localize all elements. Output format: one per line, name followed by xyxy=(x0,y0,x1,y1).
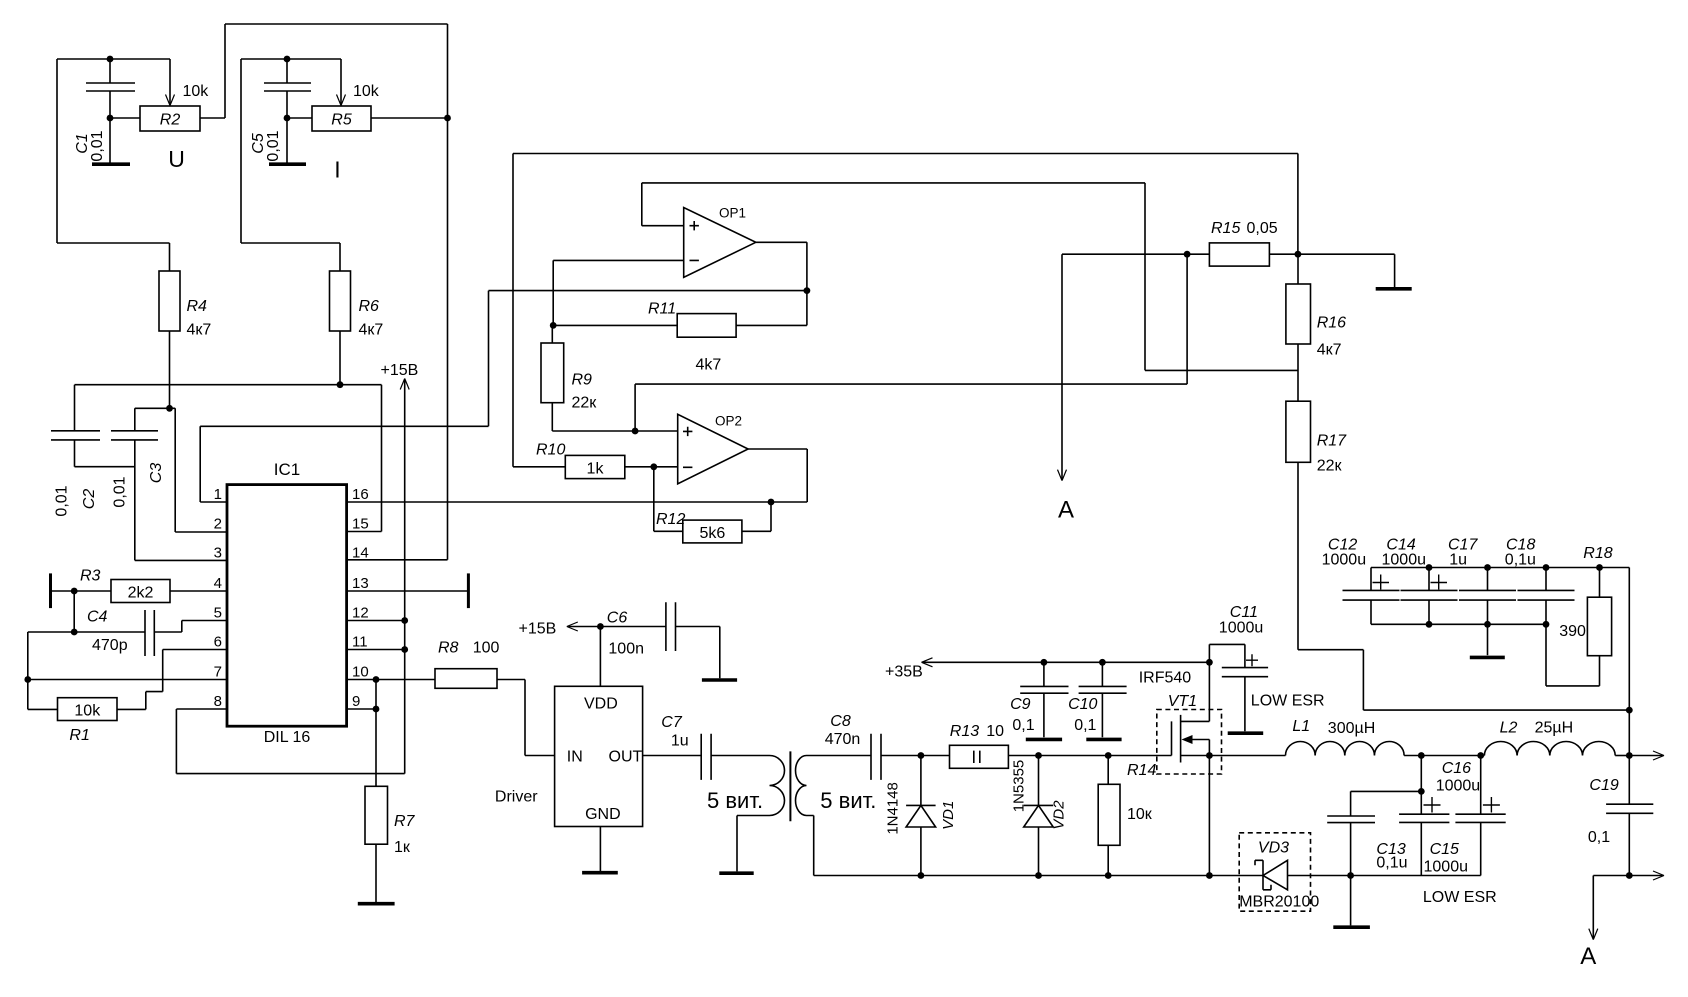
svg-text:1N5355: 1N5355 xyxy=(1011,760,1028,813)
resistor R14 10k gate pulldown xyxy=(1098,752,1156,879)
transformer secondary 5 turns xyxy=(796,756,877,876)
resistor R15 0,05 shunt xyxy=(1062,220,1301,266)
svg-text:0,01: 0,01 xyxy=(265,130,282,161)
ground C11 xyxy=(1228,731,1264,735)
svg-text:6: 6 xyxy=(214,634,222,651)
ground xyxy=(1026,738,1062,742)
svg-text:MBR20100: MBR20100 xyxy=(1239,894,1319,911)
svg-text:13: 13 xyxy=(352,575,369,592)
power +15B arrow at driver xyxy=(519,621,604,687)
ground driver GND xyxy=(582,827,618,873)
resistor R5 10k potentiometer xyxy=(287,59,451,183)
ground cap bank xyxy=(1470,624,1505,657)
svg-text:LOW ESR: LOW ESR xyxy=(1423,889,1497,906)
svg-text:L1: L1 xyxy=(1292,718,1310,735)
svg-text:OP1: OP1 xyxy=(719,206,746,221)
svg-text:C6: C6 xyxy=(607,610,628,627)
svg-text:R6: R6 xyxy=(359,298,380,315)
svg-text:0,05: 0,05 xyxy=(1247,220,1278,237)
svg-text:1000u: 1000u xyxy=(1436,778,1481,795)
capacitor C1 xyxy=(74,59,135,163)
node A current sense arrow xyxy=(1058,254,1075,523)
svg-text:I: I xyxy=(334,157,340,183)
svg-text:390: 390 xyxy=(1559,623,1586,640)
wire divider tap to OP1 xyxy=(1145,183,1298,371)
svg-text:C10: C10 xyxy=(1068,696,1097,713)
svg-text:R2: R2 xyxy=(160,112,181,129)
svg-text:R8: R8 xyxy=(438,640,459,657)
inductor L2 25uH xyxy=(1484,720,1615,756)
svg-text:10к: 10к xyxy=(1127,806,1153,823)
wire OP1 output to pin 1 xyxy=(200,242,810,502)
svg-text:R18: R18 xyxy=(1583,545,1612,562)
node I top wire xyxy=(241,56,341,271)
svg-text:7: 7 xyxy=(214,664,222,681)
wire L2 to output xyxy=(1615,755,1629,757)
svg-text:C19: C19 xyxy=(1589,777,1618,794)
svg-text:10: 10 xyxy=(352,664,369,681)
svg-text:1000u: 1000u xyxy=(1382,552,1427,569)
svg-text:5 вит.: 5 вит. xyxy=(820,788,876,813)
wire OP2 output xyxy=(748,449,807,502)
svg-text:R7: R7 xyxy=(394,813,416,830)
svg-text:R3: R3 xyxy=(80,568,101,585)
wire VT1 source to bottom rail xyxy=(1208,756,1210,876)
svg-text:1: 1 xyxy=(214,486,222,503)
svg-text:1к: 1к xyxy=(394,839,411,856)
capacitor C2 0,01 xyxy=(51,385,135,517)
svg-text:0,01: 0,01 xyxy=(54,485,71,516)
svg-text:22к: 22к xyxy=(572,395,598,412)
svg-text:470p: 470p xyxy=(92,637,128,654)
svg-text:U: U xyxy=(168,146,185,172)
svg-text:470n: 470n xyxy=(825,731,861,748)
wire pin 13 xyxy=(347,590,469,592)
svg-text:R5: R5 xyxy=(331,112,352,129)
svg-text:2: 2 xyxy=(214,516,222,533)
svg-text:R10: R10 xyxy=(536,442,565,459)
inductor L1 300uH xyxy=(1286,718,1405,756)
wire gate rail xyxy=(1039,755,1172,757)
ground xyxy=(1086,738,1121,742)
svg-text:R12: R12 xyxy=(656,511,685,528)
capacitor C17 1u xyxy=(1448,537,1516,628)
svg-text:C11: C11 xyxy=(1230,604,1258,621)
capacitor C15 1000u xyxy=(1399,756,1468,876)
svg-text:DIL 16: DIL 16 xyxy=(264,729,311,746)
ground xyxy=(702,678,737,682)
svg-text:GND: GND xyxy=(585,806,621,823)
svg-text:100: 100 xyxy=(473,640,500,657)
node U top wire xyxy=(57,56,170,271)
svg-text:0,01: 0,01 xyxy=(89,130,106,161)
svg-text:Driver: Driver xyxy=(495,789,538,806)
wire output cap bank top rail xyxy=(1371,564,1629,571)
resistor R1 10k xyxy=(28,650,227,745)
resistor R2 10k potentiometer xyxy=(110,24,448,172)
capacitor C14 1000u xyxy=(1382,537,1458,628)
wire output column xyxy=(1626,568,1633,879)
svg-text:IC1: IC1 xyxy=(274,460,300,479)
capacitor C7 1u xyxy=(643,714,712,780)
output terminal plus arrow xyxy=(1629,751,1664,760)
wire pins 9,10 junction xyxy=(347,676,435,786)
svg-text:2k2: 2k2 xyxy=(128,585,154,602)
svg-text:R15: R15 xyxy=(1211,220,1240,237)
svg-text:10k: 10k xyxy=(74,703,101,720)
svg-text:C3: C3 xyxy=(148,463,165,484)
ground xyxy=(358,902,395,906)
svg-text:5: 5 xyxy=(214,605,222,622)
IC1 pin numbers left 1-8 xyxy=(214,486,222,710)
svg-text:100n: 100n xyxy=(608,641,644,658)
resistor R8 100 xyxy=(435,640,555,756)
svg-text:3: 3 xyxy=(214,545,222,562)
svg-text:4к7: 4к7 xyxy=(187,322,212,339)
wire cap bank bottom rail xyxy=(1371,623,1546,625)
resistor R12 5k6 feedback xyxy=(654,467,771,543)
resistor R11 4k7 feedback xyxy=(553,291,807,374)
svg-text:25µH: 25µH xyxy=(1535,720,1574,737)
svg-text:VT1: VT1 xyxy=(1168,693,1197,710)
svg-text:IN: IN xyxy=(567,749,583,766)
svg-text:1N4148: 1N4148 xyxy=(885,782,902,835)
driver IC block xyxy=(495,686,643,826)
resistor R3 2k2 xyxy=(51,568,228,633)
resistor R17 22k xyxy=(1286,401,1629,710)
svg-text:9: 9 xyxy=(352,693,360,710)
svg-text:A: A xyxy=(1580,943,1596,970)
svg-text:10k: 10k xyxy=(353,83,380,100)
capacitor C3 0,01 xyxy=(111,405,227,561)
svg-text:0,1: 0,1 xyxy=(1074,717,1096,734)
svg-text:VD2: VD2 xyxy=(1051,800,1068,830)
capacitor C4 470p xyxy=(28,609,227,657)
svg-text:+15B: +15B xyxy=(519,621,557,638)
diode VD2 1N5355 xyxy=(1011,752,1068,879)
op-amp OP2 xyxy=(678,414,748,484)
svg-text:15: 15 xyxy=(352,516,369,533)
svg-text:OUT: OUT xyxy=(609,749,643,766)
resistor R9 22k xyxy=(541,325,678,434)
diode VD3 MBR20100 xyxy=(1239,833,1319,911)
diode VD1 1N4148 xyxy=(885,752,957,879)
capacitor C16 1000u xyxy=(1436,756,1506,876)
output terminal minus arrow xyxy=(1629,871,1664,880)
terminal bar node pin4 left xyxy=(49,573,52,608)
svg-text:VDD: VDD xyxy=(584,696,618,713)
wire pin 7 net xyxy=(24,632,227,709)
svg-text:1000u: 1000u xyxy=(1322,552,1367,569)
svg-text:C8: C8 xyxy=(830,713,851,730)
wire pin 16 to OP2 output xyxy=(347,499,808,506)
svg-text:LOW ESR: LOW ESR xyxy=(1251,693,1325,710)
wire OP1 - input xyxy=(550,260,684,328)
wire OP1 + input from R16/R17 divider xyxy=(642,183,1145,226)
svg-text:4: 4 xyxy=(214,575,222,592)
op-amp/PWM chip IC1 DIL16 xyxy=(227,460,347,746)
wire switch node xyxy=(1209,755,1285,757)
power +35B arrow xyxy=(885,658,1213,681)
svg-text:5k6: 5k6 xyxy=(700,525,726,542)
svg-text:4к7: 4к7 xyxy=(359,322,384,339)
svg-text:0,1u: 0,1u xyxy=(1505,552,1536,569)
ground transformer primary xyxy=(719,871,753,875)
svg-text:1u: 1u xyxy=(671,733,689,750)
svg-text:11: 11 xyxy=(352,634,368,651)
resistor R16 4k7 xyxy=(1286,254,1346,401)
capacitor C19 0,1 xyxy=(1588,777,1653,846)
svg-text:C7: C7 xyxy=(661,714,683,731)
resistor R7 1k xyxy=(365,786,416,902)
svg-text:14: 14 xyxy=(352,545,369,562)
svg-text:22к: 22к xyxy=(1317,458,1343,475)
svg-text:0,01: 0,01 xyxy=(112,476,129,507)
svg-text:0,1: 0,1 xyxy=(1588,829,1610,846)
capacitor C18 0,1u xyxy=(1505,537,1575,628)
svg-text:C4: C4 xyxy=(87,609,108,626)
node A output arrow xyxy=(1580,876,1629,971)
IC1 pin numbers right 16-9 xyxy=(352,486,369,710)
svg-text:L2: L2 xyxy=(1500,720,1518,737)
wire +15V bus to pin 15 xyxy=(75,385,382,532)
wire pin 2 from C3/R4 node xyxy=(170,408,228,532)
svg-text:R4: R4 xyxy=(187,298,208,315)
svg-text:16: 16 xyxy=(352,486,369,503)
svg-text:R13: R13 xyxy=(950,723,979,740)
svg-text:1000u: 1000u xyxy=(1219,620,1264,637)
wire R10 to ground loop xyxy=(513,154,1298,467)
capacitor C13 0,1u xyxy=(1327,791,1421,878)
svg-text:R11: R11 xyxy=(648,301,676,318)
ground xyxy=(269,162,306,166)
svg-text:4к7: 4к7 xyxy=(1317,342,1342,359)
resistor R10 1k xyxy=(513,442,678,479)
resistor R4 4k7 xyxy=(159,271,211,408)
svg-text:0,1: 0,1 xyxy=(1012,717,1034,734)
terminal bar node pin13 right xyxy=(467,573,470,608)
svg-text:VD1: VD1 xyxy=(940,801,957,830)
transformer core xyxy=(789,751,791,821)
ground xyxy=(1376,287,1412,291)
capacitor C9 0,1 xyxy=(1010,659,1068,737)
capacitor C8 470n xyxy=(825,713,921,780)
svg-text:C9: C9 xyxy=(1010,696,1031,713)
svg-text:R1: R1 xyxy=(69,727,89,744)
svg-text:0,1u: 0,1u xyxy=(1376,855,1407,872)
capacitor C10 0,1 xyxy=(1068,659,1127,737)
capacitor C12 1000u xyxy=(1322,537,1400,625)
transformer primary 5 turns xyxy=(707,756,785,872)
resistor R13 10 xyxy=(921,723,1039,768)
svg-text:C15: C15 xyxy=(1430,841,1459,858)
capacitor C6 100n xyxy=(600,602,719,678)
svg-text:A: A xyxy=(1058,497,1074,524)
wire U/I sum vertical to pin 14 xyxy=(347,24,448,560)
wire current sense to OP2 + xyxy=(635,254,1187,431)
svg-text:300µH: 300µH xyxy=(1328,720,1375,737)
svg-text:1u: 1u xyxy=(1449,552,1467,569)
svg-text:R16: R16 xyxy=(1317,315,1346,332)
svg-text:+15B: +15B xyxy=(381,362,419,379)
svg-text:8: 8 xyxy=(214,693,222,710)
capacitor C11 1000u LOW ESR xyxy=(1209,604,1324,731)
ground xyxy=(92,162,130,166)
ground C13 xyxy=(1333,876,1370,928)
svg-text:R17: R17 xyxy=(1317,433,1347,450)
svg-text:10k: 10k xyxy=(183,83,210,100)
resistor R18 390 xyxy=(1546,545,1613,686)
wire L1 to C15/C16 xyxy=(1404,752,1484,759)
svg-text:1000u: 1000u xyxy=(1424,859,1469,876)
svg-text:VD3: VD3 xyxy=(1258,840,1289,857)
wire R15 right to ground xyxy=(1269,254,1394,287)
svg-text:C2: C2 xyxy=(81,489,98,510)
svg-text:5 вит.: 5 вит. xyxy=(707,788,763,813)
capacitor C5 xyxy=(250,59,311,163)
svg-text:C16: C16 xyxy=(1442,760,1471,777)
svg-text:OP2: OP2 xyxy=(715,414,742,429)
wire bottom rail xyxy=(814,872,1481,879)
resistor R6 4k7 xyxy=(330,271,384,388)
power +15B rail at IC xyxy=(176,362,418,774)
label LOW ESR output caps xyxy=(1423,889,1497,906)
svg-text:1k: 1k xyxy=(587,461,605,478)
op-amp OP1 xyxy=(684,206,756,278)
svg-text:IRF540: IRF540 xyxy=(1139,670,1192,687)
svg-text:10: 10 xyxy=(986,723,1004,740)
svg-text:4k7: 4k7 xyxy=(696,357,722,374)
svg-text:12: 12 xyxy=(352,605,369,622)
svg-text:R14: R14 xyxy=(1127,762,1156,779)
svg-text:+35B: +35B xyxy=(885,664,923,681)
svg-text:R9: R9 xyxy=(572,372,593,389)
transistor VT1 IRF540 xyxy=(1139,662,1222,774)
